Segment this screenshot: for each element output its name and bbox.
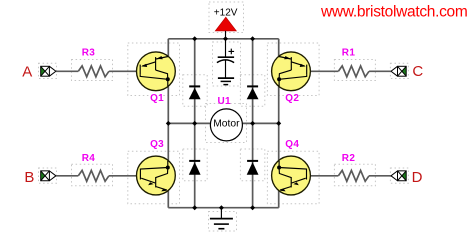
capacitor C1 xyxy=(217,39,234,78)
selection box transistor Q2 xyxy=(267,43,319,96)
selection box pin D xyxy=(390,168,408,183)
selection box diode D4 xyxy=(240,149,264,181)
wire diode column right xyxy=(252,39,254,208)
resistor R3 xyxy=(78,66,109,77)
wire Q2 base to R1 xyxy=(307,70,339,72)
wire motor row left xyxy=(168,122,210,124)
wire rail to Q2 emitter xyxy=(278,39,280,57)
selection box resistor R2 xyxy=(334,164,375,186)
transistor Q4 xyxy=(272,156,311,195)
wire R1 to pin C xyxy=(369,70,391,72)
power +12V xyxy=(215,17,236,39)
selection box pin A xyxy=(39,63,57,78)
wire pin A to R3 xyxy=(56,70,78,72)
wire Q3 emitter to bottom rail xyxy=(167,190,169,207)
diode D1 xyxy=(189,86,201,99)
selection box transistor Q4 xyxy=(267,151,319,204)
transistor Q3 xyxy=(137,156,176,195)
selection box power +12V xyxy=(209,2,244,33)
junction motor row right diode xyxy=(250,121,255,126)
wire Q1 collector to Q3 collector xyxy=(167,86,169,161)
junction bottom rail left diode xyxy=(192,205,197,210)
svg-text:www.bristolwatch.com: www.bristolwatch.com xyxy=(320,4,467,21)
junction motor row left diode xyxy=(192,121,197,126)
svg-text:R2: R2 xyxy=(342,153,356,164)
svg-text:+12V: +12V xyxy=(214,7,238,18)
resistor R1 xyxy=(338,66,369,77)
selection box diode D3 xyxy=(240,75,264,106)
svg-text:R1: R1 xyxy=(342,48,356,59)
selection box ground xyxy=(209,212,237,232)
junction top rail power xyxy=(223,36,228,41)
wire motor row right xyxy=(242,122,279,124)
pin B xyxy=(41,171,56,181)
selection box pin C xyxy=(390,63,408,78)
junction bottom rail right diode xyxy=(250,205,255,210)
wire pin B to R4 xyxy=(56,175,78,177)
svg-text:Motor: Motor xyxy=(213,118,240,129)
wire top rail xyxy=(168,38,278,40)
pin D xyxy=(391,171,406,181)
diode D3 xyxy=(247,86,259,99)
wire R4 to Q3 base xyxy=(109,175,140,177)
motor U1 xyxy=(210,109,242,141)
selection box diode D1 xyxy=(183,75,207,106)
pin C xyxy=(391,66,406,76)
wire R3 to Q1 base xyxy=(109,70,140,72)
selection box diode D2 xyxy=(183,149,207,181)
selection box transistor Q3 xyxy=(128,151,180,204)
svg-text:Q4: Q4 xyxy=(285,139,299,150)
svg-text:U1: U1 xyxy=(218,96,232,107)
selection box motor U1 xyxy=(206,104,247,143)
selection box resistor R3 xyxy=(72,60,113,81)
resistor R4 xyxy=(78,170,109,181)
ground capacitor xyxy=(218,78,234,85)
selection box resistor R1 xyxy=(334,60,375,81)
selection box pin B xyxy=(39,168,57,183)
wire diode column left xyxy=(194,39,196,208)
wire bottom rail xyxy=(168,207,278,209)
wire Q4 base to R2 xyxy=(307,175,339,177)
pin A xyxy=(41,66,56,76)
svg-text:R3: R3 xyxy=(82,48,96,59)
svg-text:Q1: Q1 xyxy=(150,93,164,104)
selection box capacitor C1 xyxy=(213,42,241,86)
wire rail to Q1 emitter xyxy=(167,39,169,57)
diode D2 xyxy=(189,161,201,175)
svg-text:R4: R4 xyxy=(82,153,96,164)
wire Q4 emitter to bottom rail xyxy=(278,190,280,207)
resistor R2 xyxy=(338,170,369,181)
svg-text:D: D xyxy=(412,169,423,186)
selection box transistor Q1 xyxy=(128,43,180,96)
svg-text:B: B xyxy=(24,169,34,186)
junction bottom rail ground xyxy=(219,205,224,210)
junction motor row Q2 column xyxy=(276,121,281,126)
selection box resistor R4 xyxy=(72,164,113,186)
svg-text:C: C xyxy=(412,63,423,80)
transistor Q2 xyxy=(272,52,311,91)
junction motor row Q1 column xyxy=(166,121,171,126)
svg-text:A: A xyxy=(22,63,32,80)
ground main xyxy=(210,208,233,229)
wire Q2 collector to Q4 collector xyxy=(278,86,280,161)
junction top rail left diode xyxy=(192,36,197,41)
wire R2 to pin D xyxy=(369,175,391,177)
svg-text:Q3: Q3 xyxy=(150,139,164,150)
junction top rail right diode xyxy=(250,36,255,41)
diode D4 xyxy=(247,161,259,175)
transistor Q1 xyxy=(137,52,176,91)
svg-text:Q2: Q2 xyxy=(285,93,299,104)
